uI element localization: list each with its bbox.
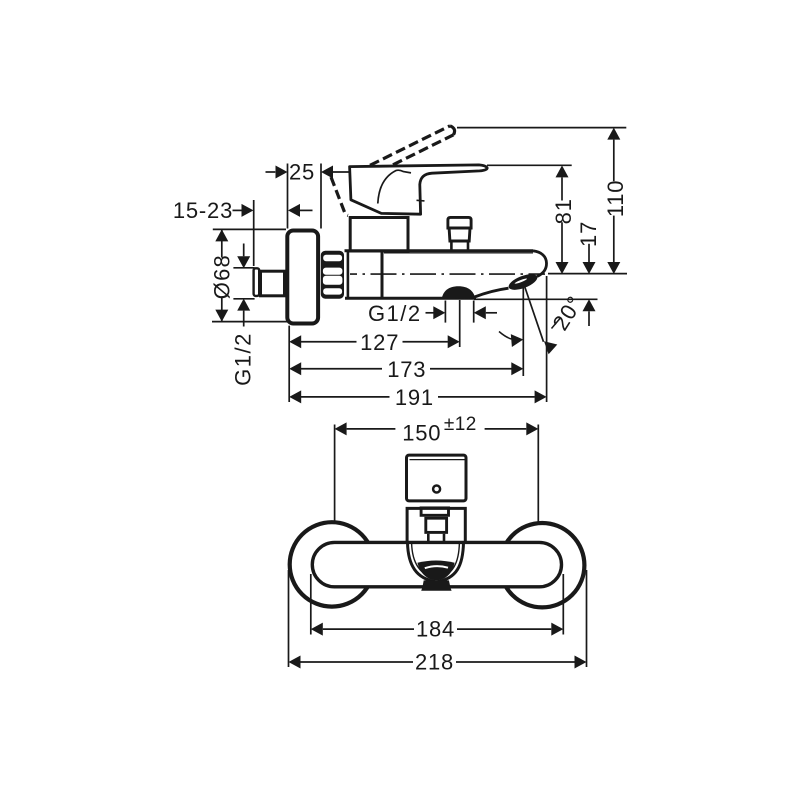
- thin inner top line: [384, 252, 533, 254]
- dim 17 tick: [474, 298, 598, 300]
- dim 173 arrows text: [289, 362, 301, 375]
- dim 150 arrows: [335, 422, 347, 435]
- dim 191 arrows text: [289, 390, 301, 403]
- dim O68 ticks: [213, 228, 286, 230]
- diverter knob front: mid block: [426, 518, 447, 532]
- dim G1/2 left ticks: [233, 267, 254, 269]
- S-union face ring: [254, 268, 260, 296]
- dim 25 arrows: [266, 171, 276, 173]
- diverter knob front: upper block: [421, 508, 448, 515]
- svg-text:173: 173: [387, 357, 426, 382]
- svg-text:184: 184: [416, 617, 455, 642]
- cartridge collar (front view): [407, 508, 465, 542]
- dim 81 top extension line: [487, 164, 572, 166]
- svg-text:Ø68: Ø68: [210, 254, 235, 299]
- spout outline U (front view): [408, 543, 464, 582]
- svg-text:G1/2: G1/2: [368, 301, 422, 326]
- dim 218 extension lines: [288, 570, 290, 667]
- diverter knob (side view) cap: [448, 217, 471, 228]
- lever raised (dashed) upper edge: [370, 126, 450, 166]
- svg-text:218: 218: [415, 649, 454, 674]
- handle (front view): [407, 455, 467, 501]
- spout mouth white slit: [425, 566, 448, 568]
- S-union hex body: [261, 271, 285, 296]
- lever raised (dashed) tip arc: [450, 126, 455, 135]
- dim 184 extension lines: [310, 574, 312, 635]
- svg-text:±12: ±12: [444, 414, 477, 435]
- dim 218 arrows text: [289, 656, 301, 669]
- dim G1/2 outlet ext lines: [444, 301, 446, 323]
- connection nut with knurled ribs: [321, 251, 344, 299]
- dim G1/2 left arrows: [243, 244, 245, 257]
- dim 191 extension line: [546, 276, 548, 402]
- dim 15-23 arrows: [233, 209, 242, 211]
- dim 173 extension line: [522, 288, 524, 376]
- 20 deg arrow at ray: [552, 319, 561, 329]
- mixer body barrel (side view): [345, 249, 534, 252]
- dim 150 extension lines: [334, 425, 336, 522]
- svg-text:81: 81: [551, 198, 576, 224]
- right wall flange circle: [500, 523, 584, 607]
- dim 127 arrows text: [289, 335, 301, 348]
- lever raised (dashed) rear edge: [331, 177, 348, 215]
- spout tip lens (black): [507, 271, 540, 293]
- 20 deg arrow at vertical: [499, 332, 512, 340]
- dim 110 top extension line: [457, 127, 626, 129]
- body/spout divider: [381, 251, 384, 298]
- svg-text:G1/2: G1/2: [231, 332, 256, 386]
- svg-text:15-23: 15-23: [173, 198, 233, 223]
- dim 15-23 extension line: [253, 200, 255, 266]
- dim 127 extension line: [459, 300, 461, 347]
- dim O68 line and arrows: [221, 229, 223, 257]
- svg-text:191: 191: [395, 385, 434, 410]
- spout underside curve: [475, 288, 509, 297]
- wall extension line below escutcheon: [288, 326, 290, 402]
- centerline extension solid: [548, 273, 627, 275]
- svg-text:150: 150: [402, 420, 441, 445]
- svg-text:127: 127: [360, 330, 399, 355]
- svg-text:110: 110: [603, 180, 628, 217]
- handle screw dot: [433, 486, 440, 493]
- dim 184 arrows text: [311, 623, 323, 636]
- escutcheon wall plate (side view): [287, 231, 318, 324]
- mixer body pill: [312, 542, 561, 586]
- diverter knob mid: [449, 228, 470, 241]
- barrel bottom edge: [345, 297, 476, 300]
- svg-text:17: 17: [576, 221, 601, 247]
- diverter knob stem: [450, 241, 453, 250]
- aerator bump (filled): [442, 286, 476, 299]
- diverter knob front: stem: [427, 534, 430, 542]
- lever neck joint tick: [417, 199, 425, 202]
- barrel left edge: [347, 250, 350, 300]
- spout mouth (black bowl): [417, 561, 454, 581]
- handle top inner line: [410, 459, 465, 461]
- cartridge housing under lever: [350, 218, 408, 252]
- dim 25 extension lines: [287, 164, 289, 229]
- dim 17 line arrows text: [588, 244, 590, 262]
- dim 81 line arrows text: [556, 165, 569, 177]
- centerline: [350, 273, 545, 275]
- dim 110 line arrows text: [607, 128, 620, 140]
- lever raised (dashed) lower edge: [393, 135, 454, 165]
- lever inner curve: [378, 170, 411, 203]
- aerator foot (front view): [421, 580, 451, 590]
- 20 deg ray: [525, 288, 544, 342]
- lever handle (solid, horizontal): [350, 165, 488, 214]
- dim G1/2 outlet arrows: [426, 312, 434, 314]
- svg-text:25: 25: [289, 159, 315, 184]
- left wall flange circle: [290, 522, 374, 606]
- spout inner line: [412, 543, 460, 579]
